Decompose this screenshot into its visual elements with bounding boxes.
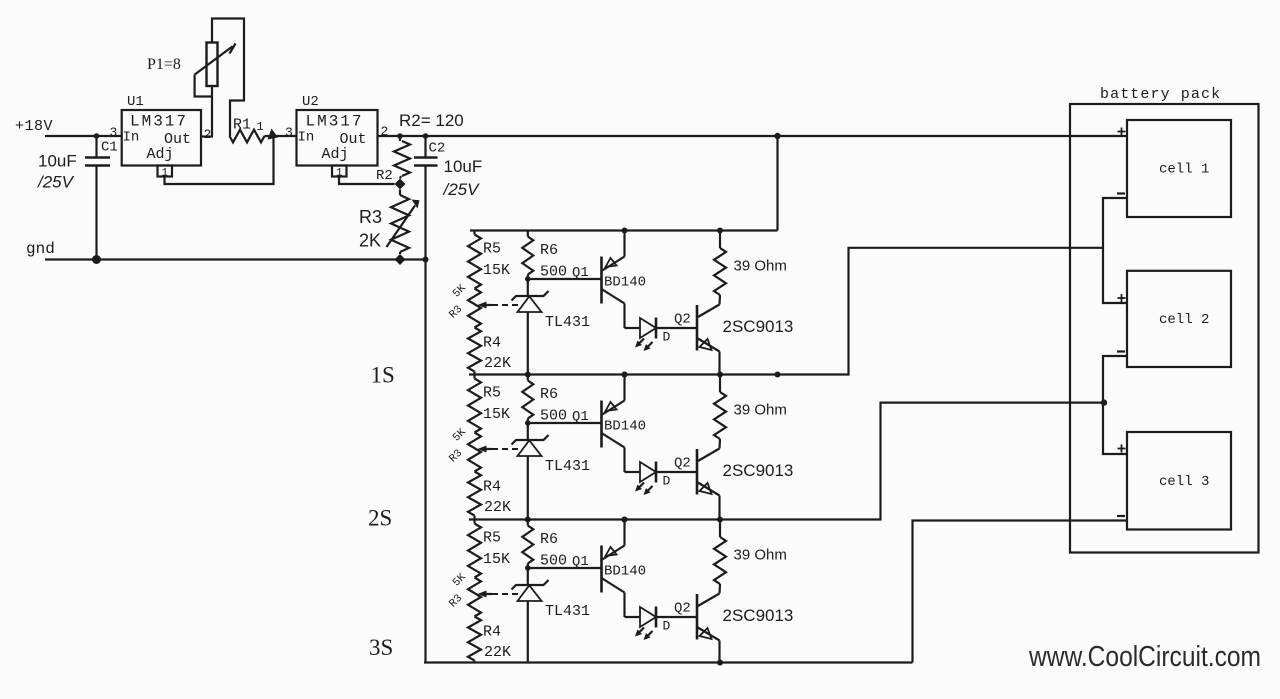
svg-text:3: 3 — [285, 125, 293, 140]
label LM317 (U1) — [130, 113, 188, 131]
pin 3 (U2) — [285, 125, 293, 140]
pin - cell3 — [1117, 515, 1125, 517]
svg-text:/25V: /25V — [443, 180, 481, 199]
junction node C2/gnd — [423, 257, 429, 263]
label Q2 (stage 3) — [674, 601, 691, 617]
svg-text:R4: R4 — [483, 335, 501, 352]
pin 1 tab (U1) — [158, 166, 173, 180]
pin - cell2 — [1117, 350, 1125, 352]
wire trimmer wiper to TL431 ref (stage 1) — [492, 304, 520, 306]
diode D LED (stage 3) — [625, 607, 657, 641]
svg-text:3S: 3S — [369, 635, 393, 660]
wire P1 wiper connection — [195, 75, 212, 97]
battery pack enclosure — [1070, 104, 1259, 553]
net label 2S — [368, 506, 392, 531]
junction node tap 2S joins battery — [1101, 399, 1107, 405]
wire stage2/stage3 boundary tap 2S — [469, 403, 1104, 520]
resistor R5 (stage 1) — [468, 231, 481, 289]
svg-text:R6: R6 — [540, 242, 558, 259]
wire LED to Q2 base (stage 1) — [656, 327, 697, 329]
capacitor C2 — [414, 136, 438, 260]
svg-text:22K: 22K — [484, 355, 511, 372]
label R5 (stage 3) — [483, 530, 501, 547]
label U1 — [127, 94, 144, 110]
svg-text:39 Ohm: 39 Ohm — [734, 402, 787, 419]
resistor R6 (stage 2) — [522, 375, 533, 424]
svg-text:R4: R4 — [483, 479, 501, 496]
svg-text:2: 2 — [204, 127, 212, 142]
battery cell 3 — [1127, 432, 1231, 530]
value /25V (C2) — [443, 180, 481, 199]
svg-text:Adj: Adj — [322, 146, 349, 163]
svg-text:22K: 22K — [484, 644, 511, 661]
svg-text:15K: 15K — [483, 551, 510, 568]
pin 1 (R1) — [257, 120, 264, 134]
label battery pack — [1100, 86, 1221, 103]
watermark www.CoolCircuit.com — [1028, 641, 1261, 673]
pin Adj (U2) — [322, 146, 349, 163]
transistor Q2 2SC9013 (stage 1) — [697, 305, 720, 375]
svg-text:R1: R1 — [233, 117, 251, 134]
svg-text:P1=8: P1=8 — [147, 56, 181, 73]
label TL431 (stage 1) — [545, 314, 590, 331]
label R4 (stage 2) — [483, 479, 501, 496]
svg-text:10uF: 10uF — [38, 152, 77, 171]
pin In (U1) — [123, 130, 140, 146]
svg-text:22K: 22K — [484, 499, 511, 516]
value R2= 120 — [399, 111, 464, 130]
trimmer R3 wiper arrow (stage 1) — [478, 302, 493, 309]
shunt reference TL431 U3 (stage 1) — [512, 279, 549, 375]
svg-text:U2: U2 — [302, 94, 319, 110]
resistor R3 (variable 2K) — [391, 190, 409, 255]
wire +18V input — [45, 135, 122, 137]
resistor 39 Ohm (stage 1) — [714, 231, 726, 305]
resistor R4 (stage 2) — [468, 472, 481, 520]
label R6 (stage 3) — [540, 531, 558, 548]
wire LED to Q2 base (stage 3) — [656, 616, 697, 618]
value 15K (stage 2) — [483, 406, 510, 423]
label R3 rotated (stage 1) — [447, 282, 469, 321]
label R3 — [359, 207, 382, 227]
wire gnd rail — [45, 258, 426, 260]
pin 2 (U2) — [381, 124, 389, 139]
label Q1 (stage 3) — [572, 554, 589, 570]
resistor R2 — [394, 136, 410, 179]
net label +18V — [15, 118, 53, 135]
label U2 — [302, 94, 319, 110]
label R5 (stage 2) — [483, 385, 501, 402]
svg-text:15K: 15K — [483, 262, 510, 279]
svg-text:39 Ohm: 39 Ohm — [734, 547, 787, 564]
svg-text:BD140: BD140 — [604, 419, 646, 435]
wire cell3 negative riser — [913, 521, 1128, 663]
value /25V (C1) — [37, 173, 75, 192]
svg-text:R5: R5 — [483, 241, 501, 258]
junction node tap 1S — [775, 372, 781, 378]
battery cell 2 — [1127, 271, 1231, 367]
svg-text:Q2: Q2 — [674, 312, 691, 328]
label cell 1 — [1159, 162, 1209, 178]
svg-text:15K: 15K — [483, 406, 510, 423]
net label 3S — [369, 635, 393, 660]
label D (stage 1) — [663, 330, 671, 345]
svg-text:/25V: /25V — [37, 173, 75, 192]
label TL431 (stage 2) — [545, 458, 590, 475]
svg-text:3: 3 — [110, 125, 118, 140]
ground junction node — [92, 255, 101, 264]
wire trimmer wiper to TL431 ref (stage 2) — [492, 448, 520, 450]
node U2-Adj/R2/R3 junction — [395, 179, 406, 190]
trimmer R3 wiper arrow (stage 3) — [478, 591, 493, 598]
svg-text:R5: R5 — [483, 385, 501, 402]
value 500 (stage 2) — [540, 408, 567, 425]
pin Out (U2) — [340, 131, 367, 148]
resistor R6 (stage 1) — [522, 231, 533, 280]
label R2 — [376, 168, 393, 184]
wire U1 Adj feedback — [165, 137, 274, 184]
svg-text:+18V: +18V — [15, 118, 53, 135]
svg-text:BD140: BD140 — [604, 275, 646, 291]
net label gnd — [26, 240, 55, 258]
label R1 — [233, 117, 251, 134]
svg-text:R4: R4 — [483, 624, 501, 641]
value 39 Ohm (stage 1) — [734, 258, 787, 275]
capacitor C1 — [85, 136, 110, 260]
svg-text:TL431: TL431 — [545, 603, 590, 620]
resistor R4 (stage 1) — [468, 328, 481, 375]
op-amp U2 LM317 regulator — [297, 110, 378, 166]
label D (stage 2) — [663, 474, 671, 489]
wire U2 Adj feedback — [339, 177, 395, 185]
transistor Q1 BD140 (stage 1) — [602, 231, 625, 329]
trimmer R3 (stage 1) — [468, 289, 481, 328]
label Q2 (stage 2) — [674, 456, 691, 472]
junction node R6/TL431/base (stage 2) — [525, 420, 531, 426]
junction node Q1-2 emitter (tap 1S) — [622, 372, 628, 378]
label C2 — [429, 141, 446, 157]
svg-text:R6: R6 — [540, 386, 558, 403]
junction node Q1-3 emitter (tap 2S) — [622, 517, 628, 523]
svg-text:U1: U1 — [127, 94, 144, 110]
label R4 (stage 3) — [483, 624, 501, 641]
junction node C2 top — [423, 133, 429, 139]
svg-text:2SC9013: 2SC9013 — [723, 317, 794, 336]
svg-text:2K: 2K — [359, 231, 381, 251]
wire stage 1 top rail — [470, 229, 778, 231]
label 2SC9013 (stage 2) — [723, 461, 794, 480]
shunt reference TL431 U4 (stage 2) — [512, 423, 549, 520]
diode D LED (stage 1) — [625, 318, 657, 352]
junction node R6/TL431/base (stage 3) — [525, 565, 531, 571]
svg-text:Q2: Q2 — [674, 456, 691, 472]
wire P1 bottom lead — [211, 86, 213, 137]
wire rail drop to stage 1 — [776, 136, 778, 231]
junction node TL431-2/R6-3 (tap 2S) — [525, 517, 531, 523]
label R6 (stage 1) — [540, 242, 558, 259]
label 2SC9013 (stage 3) — [723, 606, 794, 625]
potentiometer P1 body — [207, 43, 218, 87]
transistor Q2 2SC9013 (stage 2) — [697, 449, 720, 520]
label R3 rotated (stage 2) — [447, 426, 469, 465]
net label 1S — [371, 363, 395, 388]
resistor R6 (stage 3) — [522, 520, 533, 569]
label D (stage 3) — [663, 619, 671, 634]
junction node rail to ladder drop — [774, 133, 780, 139]
svg-text:Q1: Q1 — [572, 265, 589, 281]
value 22K (stage 3) — [484, 644, 511, 661]
svg-text:1S: 1S — [371, 363, 395, 388]
value 10uF (C1) — [38, 152, 77, 171]
wire base drive (stage 3) — [528, 567, 602, 569]
trimmer R3 (stage 3) — [468, 578, 481, 617]
transistor Q1 BD140 (stage 3) — [602, 520, 625, 618]
label 2SC9013 (stage 1) — [723, 317, 794, 336]
wire stage1/stage2 boundary tap 1S — [469, 248, 1103, 375]
trimmer R3 (stage 2) — [468, 433, 481, 472]
battery cell 1 — [1127, 120, 1231, 217]
label R6 (stage 2) — [540, 386, 558, 403]
svg-text:R6: R6 — [540, 531, 558, 548]
pin In (U2) — [298, 130, 315, 146]
wire bottom rail 3S — [424, 661, 913, 663]
svg-text:39 Ohm: 39 Ohm — [734, 258, 787, 275]
resistor R5 (stage 2) — [468, 375, 481, 433]
svg-text:2SC9013: 2SC9013 — [723, 461, 794, 480]
svg-text:Q1: Q1 — [572, 409, 589, 425]
svg-text:D: D — [663, 619, 671, 634]
value 2K (R3) — [359, 231, 381, 251]
wire P1 top loop — [212, 19, 244, 137]
value 500 (stage 1) — [540, 264, 567, 281]
shunt reference TL431 U5 (stage 3) — [512, 568, 549, 663]
node arrow at R1 output junction — [268, 129, 279, 140]
label R5 (stage 1) — [483, 241, 501, 258]
svg-text:1: 1 — [257, 120, 264, 134]
svg-text:LM317: LM317 — [306, 113, 364, 131]
label TL431 (stage 3) — [545, 603, 590, 620]
resistor 39 Ohm (stage 3) — [714, 520, 726, 594]
svg-text:cell 1: cell 1 — [1159, 162, 1209, 178]
resistor 39 Ohm (stage 2) — [714, 375, 726, 449]
junction node Q2-1 emitter/39ohm-2 (tap 1S) — [717, 372, 723, 378]
wire trimmer wiper to TL431 ref (stage 3) — [492, 593, 520, 595]
wire U1 Out to P1 — [201, 135, 213, 137]
svg-text:C2: C2 — [429, 141, 446, 157]
value 22K (stage 1) — [484, 355, 511, 372]
svg-text:LM317: LM317 — [130, 113, 188, 131]
transistor Q2 2SC9013 (stage 3) — [697, 594, 720, 663]
wire ground drop to bottom rail — [424, 260, 426, 663]
pin 2 (U1) — [204, 127, 212, 142]
label Q1 (stage 2) — [572, 409, 589, 425]
op-amp U1 LM317 regulator — [122, 110, 201, 166]
junction node R2 top — [397, 133, 403, 139]
resistor R5 (stage 3) — [468, 520, 481, 578]
P1 wiper — [195, 44, 236, 75]
svg-text:cell 3: cell 3 — [1159, 474, 1209, 490]
svg-text:R2: R2 — [376, 168, 393, 184]
label BD140 (stage 3) — [604, 564, 646, 580]
svg-text:cell 2: cell 2 — [1159, 312, 1209, 328]
pin 1 tab (U2) — [332, 166, 347, 180]
svg-text:2SC9013: 2SC9013 — [723, 606, 794, 625]
transistor Q1 BD140 (stage 2) — [602, 375, 625, 473]
junction node Q2-2 emitter/39ohm-3 (tap 2S) — [717, 517, 723, 523]
svg-text:C1: C1 — [101, 140, 118, 156]
label R4 (stage 1) — [483, 335, 501, 352]
svg-text:battery pack: battery pack — [1100, 86, 1221, 103]
svg-text:BD140: BD140 — [604, 564, 646, 580]
svg-text:In: In — [123, 130, 140, 146]
junction node Q1 emitter/top rail (stage 3) — [622, 517, 628, 523]
value 39 Ohm (stage 2) — [734, 402, 787, 419]
label BD140 (stage 2) — [604, 419, 646, 435]
label Q1 (stage 1) — [572, 265, 589, 281]
pin + cell3 — [1118, 445, 1126, 453]
R3 wiper arrow — [387, 200, 420, 248]
svg-text:TL431: TL431 — [545, 458, 590, 475]
label cell 2 — [1159, 312, 1209, 328]
label P1=8 — [147, 56, 181, 73]
trimmer R3 wiper arrow (stage 2) — [478, 446, 493, 453]
svg-text:TL431: TL431 — [545, 314, 590, 331]
resistor R1 — [230, 130, 297, 143]
label cell 3 — [1159, 474, 1209, 490]
pin Adj (U1) — [147, 146, 174, 163]
resistor R4 (stage 3) — [468, 617, 481, 663]
svg-text:Q2: Q2 — [674, 601, 691, 617]
junction node Q2-3 emitter (bottom rail) — [717, 660, 723, 666]
pin + cell1 — [1118, 128, 1126, 136]
svg-text:www.CoolCircuit.com: www.CoolCircuit.com — [1028, 641, 1261, 673]
svg-text:R5: R5 — [483, 530, 501, 547]
svg-text:D: D — [663, 474, 671, 489]
svg-text:2S: 2S — [368, 506, 392, 531]
pin - cell1 — [1117, 192, 1125, 194]
value 22K (stage 2) — [484, 499, 511, 516]
diode D LED (stage 2) — [625, 462, 657, 496]
label C1 — [101, 140, 118, 156]
svg-text:10uF: 10uF — [444, 157, 483, 176]
junction node R6/TL431/base (stage 1) — [525, 276, 531, 282]
label BD140 (stage 1) — [604, 275, 646, 291]
label LM317 (U2) — [306, 113, 364, 131]
wire base drive (stage 2) — [528, 422, 602, 424]
junction node Q1 emitter/top rail (stage 1) — [622, 228, 628, 234]
wire LED to Q2 base (stage 2) — [656, 471, 697, 473]
label Q2 (stage 1) — [674, 312, 691, 328]
pin + cell2 — [1118, 294, 1126, 302]
value 15K (stage 1) — [483, 262, 510, 279]
node R3/gnd junction — [395, 254, 406, 265]
wire cell1 negative to cell2 positive — [1103, 198, 1127, 303]
wire base drive (stage 1) — [528, 278, 602, 280]
wire cell2 negative to cell3 positive — [1103, 356, 1127, 454]
svg-text:In: In — [298, 130, 315, 146]
pin Out (U1) — [164, 131, 191, 148]
junction node 39ohm/top rail (stage 1) — [717, 228, 723, 234]
junction node C1/input — [94, 133, 100, 139]
value 10uF (C2) — [444, 157, 483, 176]
value 15K (stage 3) — [483, 551, 510, 568]
svg-text:Q1: Q1 — [572, 554, 589, 570]
junction node Q1 emitter/top rail (stage 2) — [622, 372, 628, 378]
svg-text:R2= 120: R2= 120 — [399, 111, 464, 130]
svg-text:gnd: gnd — [26, 240, 55, 258]
label R3 rotated (stage 3) — [447, 571, 469, 610]
svg-text:D: D — [663, 330, 671, 345]
pin 3 (U1) — [110, 125, 118, 140]
svg-text:R3: R3 — [359, 207, 382, 227]
svg-text:Adj: Adj — [147, 146, 174, 163]
wire main output rail — [378, 135, 1128, 137]
value 39 Ohm (stage 3) — [734, 547, 787, 564]
junction node TL431-1/R6-2 (tap 1S) — [525, 372, 531, 378]
value 500 (stage 3) — [540, 553, 567, 570]
